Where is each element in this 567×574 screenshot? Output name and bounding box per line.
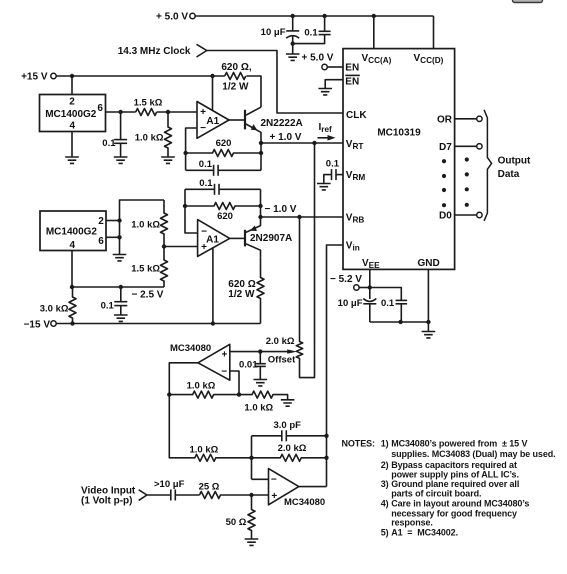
wire +15V rail (56, 75, 224, 77)
wire offset buffer + input to pot wiper (230, 351, 288, 353)
node junction -1.0V emitter (258, 215, 262, 219)
svg-text:2N2907A: 2N2907A (250, 233, 292, 244)
node junction output/feedback left (167, 392, 171, 396)
node -2.5 V label (132, 290, 164, 301)
op-amp A1 (upper half MC34002) (197, 102, 229, 139)
ground below offset 1.0k (281, 400, 295, 406)
node -5.2V supply label (330, 274, 362, 285)
node junction 620 right lower (258, 204, 262, 208)
resistor 620 Ohm 1/2 W (lower) (228, 257, 264, 323)
capacitor 0.1 feedback (upper) (186, 159, 261, 176)
voltage reference U3 MC1400G2 (lower) (40, 211, 106, 251)
svg-text:−: − (221, 366, 227, 377)
svg-text:1/2 W: 1/2 W (222, 82, 249, 93)
voltage reference U2 MC1400G2 (upper) (40, 95, 106, 132)
svg-text:+: + (200, 107, 206, 118)
node +15V supply terminal label (21, 72, 48, 83)
node junction on +5V rail at VCC(A) (372, 14, 376, 18)
svg-text:1.0 kΩ: 1.0 kΩ (244, 403, 273, 414)
node junction pin2 (117, 218, 121, 222)
node -1.0 V label (265, 204, 297, 215)
wire D0 pin (455, 214, 477, 216)
pin label GND (418, 258, 440, 269)
node +5.0V supply terminal label (156, 12, 188, 23)
resistor 1.0 kOhm to ground (upper) (135, 112, 172, 157)
resistor 1.0 kOhm (lower input) (131, 200, 167, 247)
svg-text:0.01: 0.01 (239, 359, 258, 370)
pin label D7 (439, 142, 452, 153)
svg-text:− 1.0 V: − 1.0 V (265, 204, 297, 215)
resistor 50 Ohm to ground (226, 495, 255, 539)
svg-text:−15 V: −15 V (24, 319, 51, 330)
pin label OR (437, 115, 453, 126)
terminal D7 output (477, 144, 482, 149)
svg-text:MC1400G2: MC1400G2 (46, 227, 98, 238)
node junction summing (249, 456, 253, 460)
wire EN-bar pin to ground (325, 80, 343, 89)
terminal +5.0V (190, 13, 195, 18)
svg-text:2: 2 (69, 96, 75, 107)
wire MC1400G2 pin 2 (71, 76, 73, 95)
node junction feedback 620 left (183, 151, 187, 155)
svg-text:10 μF: 10 μF (261, 27, 286, 38)
svg-text:1.0 kΩ: 1.0 kΩ (131, 220, 160, 231)
resistor 1.0 kOhm from offset buffer (169, 395, 251, 462)
wire pin 2 lower (106, 220, 120, 222)
video input chevron (139, 490, 147, 501)
svg-text:1.0 kΩ: 1.0 kΩ (187, 380, 216, 391)
terminal +5.0V at EN (322, 64, 327, 69)
resistor 25 Ohm (199, 482, 269, 499)
svg-text:EN: EN (345, 63, 359, 74)
wire VCC(D) drop (433, 16, 435, 49)
svg-text:Offset: Offset (268, 354, 296, 365)
node -15V supply terminal label (24, 319, 51, 330)
pin label VEE (362, 258, 380, 270)
terminal D0 output (477, 212, 482, 217)
ground below -2.5V cap (114, 315, 128, 321)
svg-text:4: 4 (70, 240, 76, 251)
capacitor >10uF input coupling (147, 479, 200, 500)
wire -5.2V terminal to VEE node (359, 287, 370, 289)
svg-text:A1 = MC34002.: A1 = MC34002. (391, 528, 458, 538)
pin label VRM (346, 170, 366, 182)
resistor 1.5 kOhm (lower) (131, 247, 167, 288)
svg-text:25 Ω: 25 Ω (199, 482, 220, 493)
brace output data bus (484, 110, 492, 221)
svg-text:Ground plane required over all: Ground plane required over all (391, 479, 519, 489)
node junction -15V at A1 supply (211, 321, 215, 325)
node junction +15V at pin2 (70, 74, 74, 78)
node junction below 10uF (291, 41, 295, 45)
pot wiper arrow (287, 349, 297, 353)
node junction feedback left lower (183, 204, 187, 208)
wire pin 6 lower (106, 236, 120, 238)
node junction 0.1 cap -2.5V (119, 285, 123, 289)
wire A1 negative supply to -15V (212, 247, 214, 323)
svg-text:0.1: 0.1 (381, 298, 395, 309)
svg-text:GND: GND (418, 258, 440, 269)
svg-text:0.1: 0.1 (199, 178, 213, 189)
node junction 0.1 bottom (398, 320, 402, 324)
ground below GND pin (422, 332, 436, 338)
wire Vin line from ADC to video amp output (327, 245, 344, 487)
pin label VRT (346, 139, 364, 151)
wire VCC(A) drop (373, 16, 375, 49)
svg-text:1.5 kΩ: 1.5 kΩ (131, 264, 160, 275)
node junction on +5V rail at 10uF (291, 14, 295, 18)
ground below 0.01 (254, 380, 268, 386)
node junction A1 + input lower (162, 244, 166, 248)
wire OR pin (455, 118, 477, 120)
capacitor 0.1 at VRM (324, 159, 343, 184)
svg-text:Data: Data (498, 169, 520, 180)
node junction pin4 -2.5V (70, 285, 74, 289)
svg-text:+ 1.0 V: + 1.0 V (270, 132, 302, 143)
svg-text:OR: OR (437, 115, 453, 126)
node junction on +5V rail at 0.1 (322, 14, 326, 18)
node junction 0.01 cap (258, 349, 262, 353)
svg-text:−: − (200, 123, 206, 134)
wire offset buffer - input feedback (230, 371, 239, 395)
pin label VCC(D) (414, 53, 444, 65)
svg-text:0.1: 0.1 (102, 138, 116, 149)
svg-text:14.3 MHz Clock: 14.3 MHz Clock (118, 46, 191, 57)
wire A1 positive supply from +15V (212, 76, 214, 110)
svg-text:6: 6 (97, 103, 103, 114)
svg-text:MC34080’s powered from ± 15 V: MC34080’s powered from ± 15 V (391, 438, 527, 448)
node NOTES annotations (342, 438, 556, 537)
node junction GND pin bottom (426, 320, 430, 324)
node +1.0 V label (270, 132, 302, 143)
node +5.0V label at EN (302, 53, 334, 64)
svg-text:3.0 pF: 3.0 pF (274, 420, 302, 431)
wire -2.5V rail (72, 251, 164, 288)
svg-text:CLK: CLK (346, 110, 367, 121)
svg-text:2.0 kΩ: 2.0 kΩ (266, 336, 295, 347)
ground below 1.0k (161, 157, 175, 163)
pin label VRB (346, 213, 365, 225)
wire MC1400G2 pin 4 to ground (71, 132, 73, 158)
svg-text:4: 4 (70, 120, 76, 131)
terminal OR output (477, 116, 482, 121)
node junction video amp + input (249, 493, 253, 497)
svg-text:A1: A1 (206, 116, 219, 127)
wire +5V rail (195, 15, 433, 17)
capacitor 0.1 bypass (+5V) (293, 16, 331, 44)
svg-text:supplies. MC34083 (Dual) may b: supplies. MC34083 (Dual) may be used. (391, 449, 555, 459)
node junction feedback right (237, 392, 241, 396)
svg-text:parts of circuit board.: parts of circuit board. (391, 488, 481, 498)
svg-text:Output: Output (498, 156, 531, 167)
wire GND pin down (427, 269, 429, 331)
svg-text:D7: D7 (439, 142, 452, 153)
node junction VRT to offset pot (312, 141, 316, 145)
node junction feedback 620 right (259, 151, 263, 155)
svg-text:2N2222A: 2N2222A (261, 118, 303, 129)
resistor 1.0 kOhm offset feedback (169, 380, 239, 398)
terminal -5.2V (354, 285, 359, 290)
svg-text:2.0 kΩ: 2.0 kΩ (278, 443, 307, 454)
svg-text:−: − (271, 475, 277, 486)
node junction at 1.0k (166, 110, 170, 114)
node junction -15V at 3.0k (70, 321, 74, 325)
pin label CLK (346, 110, 367, 121)
svg-text:2: 2 (98, 216, 104, 227)
svg-text:50 Ω: 50 Ω (226, 517, 247, 528)
pin label EN (345, 63, 359, 74)
svg-text:+15 V: +15 V (21, 72, 48, 83)
svg-text:1.5 kΩ: 1.5 kΩ (134, 98, 163, 109)
resistor 620 feedback (lower) (185, 203, 261, 222)
pin label VCC(A) (362, 53, 392, 65)
resistor 620 Ohm 1/2 W (upper) (221, 62, 251, 93)
wire feedback left vertical (251, 436, 253, 480)
op-amp A1 (lower half MC34002) (198, 220, 230, 257)
transistor Q2 2N2907A (230, 217, 293, 257)
node Output Data label (498, 156, 531, 180)
ground below 0.1 filter cap (114, 157, 128, 163)
svg-text:(1 Volt p-p): (1 Volt p-p) (81, 496, 132, 507)
resistor 1.0 kOhm offset to ground (239, 391, 288, 414)
svg-text:620 Ω,: 620 Ω, (221, 62, 251, 73)
svg-text:+ 5.0 V: + 5.0 V (156, 12, 188, 23)
wire 1.5k to A1 + input (157, 111, 197, 113)
svg-text:MC34080: MC34080 (170, 343, 211, 354)
resistor 620 feedback (upper) (186, 138, 261, 156)
wire EN pin (328, 66, 344, 68)
pin label Vin (346, 241, 360, 253)
wire VEE pin down (369, 269, 371, 287)
wire -15V rail (56, 323, 260, 325)
wire A1 lower inverting input (185, 189, 198, 233)
svg-text:EN: EN (345, 76, 359, 87)
terminal -15V (51, 321, 56, 326)
node junction pin6 (117, 235, 121, 239)
node junction emitter +1.0V (259, 141, 263, 145)
wire offset buffer output (169, 363, 198, 395)
svg-text:0.1: 0.1 (326, 159, 340, 170)
resistor 2.0 kOhm feedback (252, 443, 327, 461)
node ellipsis dots outside IC D7..D0 (465, 157, 469, 207)
svg-text:+: + (271, 491, 277, 502)
svg-text:620: 620 (216, 138, 232, 149)
ground below +5V bypass caps (286, 44, 300, 61)
ground at EN-bar (318, 89, 332, 95)
wire VEE cap common to GND pin (370, 321, 429, 323)
ground below 50 Ohm (245, 539, 259, 545)
svg-text:MC10319: MC10319 (377, 128, 421, 139)
svg-text:1): 1) (381, 438, 389, 448)
svg-text:1.0 kΩ: 1.0 kΩ (135, 133, 164, 144)
svg-text:1/2 W: 1/2 W (228, 289, 255, 300)
node junction VRB to offset pot (297, 215, 301, 219)
svg-text:D0: D0 (439, 211, 452, 222)
svg-text:− 5.2 V: − 5.2 V (330, 274, 362, 285)
wire -1.0V node to VRB (261, 216, 344, 218)
svg-text:0.1: 0.1 (101, 301, 115, 312)
ground below pin2/6 tie (113, 255, 127, 261)
svg-text:MC34080: MC34080 (284, 497, 325, 508)
wire to A1 lower + input (164, 246, 198, 248)
wire 620 1/2W to collector (246, 76, 261, 107)
wire emitter node down to cap (260, 143, 262, 170)
capacitor 0.1 feedback (lower) (185, 178, 261, 195)
potentiometer 2.0 kOhm Offset (266, 143, 315, 378)
svg-text:Bypass capacitors required at: Bypass capacitors required at (391, 460, 517, 470)
svg-text:6: 6 (98, 236, 104, 247)
node Video Input label (81, 485, 136, 506)
wire video amp - input (252, 478, 269, 480)
svg-text:5): 5) (381, 528, 389, 538)
node ellipsis dots inside IC D7..D0 (442, 159, 446, 207)
op-amp U4 MC34080 offset buffer (points left) (170, 343, 230, 380)
capacitor 3.0 pF feedback (252, 420, 327, 441)
svg-text:3.0 kΩ: 3.0 kΩ (40, 304, 69, 315)
resistor 3.0 kOhm (40, 287, 76, 324)
svg-text:MC1400G2: MC1400G2 (45, 109, 97, 120)
node junction VEE (368, 285, 372, 289)
wire D7 pin (455, 145, 477, 147)
capacitor 0.1 at VEE (381, 298, 407, 322)
wire pins 2-6 tie and up to 1.0k (120, 200, 165, 255)
svg-text:1.0 kΩ: 1.0 kΩ (190, 445, 219, 456)
svg-text:4): 4) (381, 498, 389, 508)
clock input chevron (197, 44, 207, 57)
node junction 2.0k right (324, 456, 328, 460)
node Iref current arrow (318, 122, 336, 141)
wire +1.0V node to VRT (261, 142, 343, 144)
svg-text:0.1: 0.1 (304, 28, 318, 39)
wire video amp output (299, 486, 327, 488)
ground at VRM cap (317, 184, 331, 190)
capacitor 10uF bypass (+5V) (261, 16, 300, 44)
browser scrollbar button artifact top right (513, 0, 543, 3)
wire A1 inverting input down (186, 128, 197, 170)
op-amp U5 MC34080 video amp (269, 469, 326, 509)
pin label EN-bar (345, 75, 360, 87)
ground below MC1400G2 upper (65, 157, 79, 163)
svg-text:2): 2) (381, 460, 389, 470)
svg-text:− 2.5 V: − 2.5 V (132, 290, 164, 301)
wire clock to CLK pin (207, 51, 343, 114)
svg-text:+ 5.0 V: + 5.0 V (302, 53, 334, 64)
svg-text:10 μF: 10 μF (338, 298, 363, 309)
resistor 1.5 kOhm (upper) (134, 98, 163, 116)
wire pin 6 to 1.5k (106, 111, 136, 113)
svg-text:620: 620 (217, 211, 233, 222)
svg-text:Care in layout around MC34080’: Care in layout around MC34080’s (391, 498, 529, 508)
capacitor 0.01 at offset wiper (239, 352, 266, 380)
svg-text:+: + (221, 349, 227, 360)
capacitor 0.1 (pin6 filter) (102, 112, 127, 157)
node junction 3.0pF right (324, 434, 328, 438)
svg-text:0.1: 0.1 (199, 159, 213, 170)
svg-text:NOTES:: NOTES: (342, 438, 376, 448)
pin label D0 (439, 211, 452, 222)
node junction at 0.1 cap (118, 110, 122, 114)
terminal +15V (51, 73, 56, 78)
transistor Q1 2N2222A (229, 107, 303, 143)
IC U1 MC10319 ADC (343, 49, 455, 270)
node junction +15V at A1 supply (210, 74, 214, 78)
capacitor 10uF at VEE (338, 288, 377, 323)
svg-text:response.: response. (391, 518, 433, 528)
node 14.3 MHz Clock input label (118, 46, 191, 57)
wire -1.0V vertical (260, 189, 262, 217)
wire VEE node to 0.1 branch (370, 288, 402, 301)
svg-text:3): 3) (381, 479, 389, 489)
svg-text:>10 μF: >10 μF (154, 479, 185, 490)
capacitor 0.1 (-2.5V filter) (101, 287, 128, 315)
svg-text:A1: A1 (206, 235, 219, 246)
